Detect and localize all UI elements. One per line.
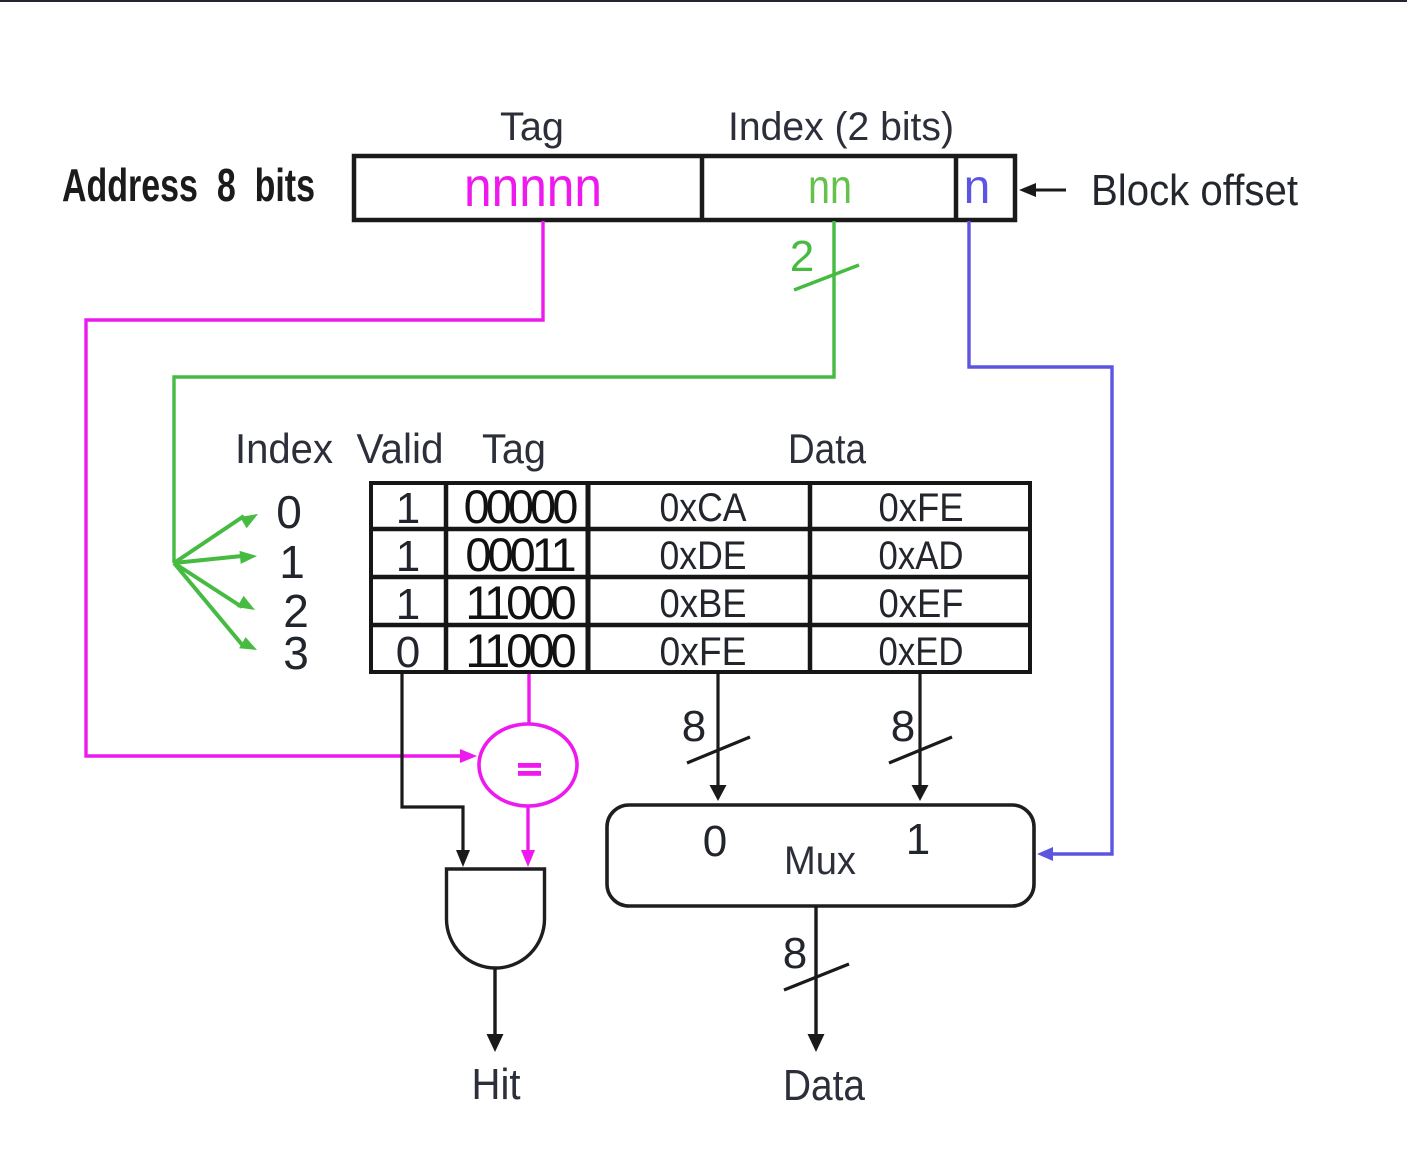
wire index (green) from address to cache rows xyxy=(174,221,834,563)
svg-text:0: 0 xyxy=(276,486,302,538)
svg-text:1: 1 xyxy=(279,536,305,588)
svg-text:1: 1 xyxy=(396,532,420,581)
svg-text:1: 1 xyxy=(396,484,420,533)
column divider data0/data1 xyxy=(808,481,813,674)
svg-text:Block offset: Block offset xyxy=(1091,166,1298,215)
svg-text:0: 0 xyxy=(703,817,727,866)
svg-text:1: 1 xyxy=(396,580,420,629)
svg-text:0xED: 0xED xyxy=(879,630,964,674)
wire tag (magenta) from address to comparator xyxy=(86,221,543,756)
svg-text:nnnnn: nnnnn xyxy=(464,155,602,218)
svg-text:1: 1 xyxy=(906,815,930,864)
svg-text:00000: 00000 xyxy=(464,480,578,533)
wire tag column to comparator (magenta) xyxy=(527,674,530,724)
svg-text:Hit: Hit xyxy=(472,1060,521,1109)
block offset arrow xyxy=(1030,189,1066,192)
svg-text:8: 8 xyxy=(891,702,915,751)
field divider tag/index xyxy=(700,154,705,222)
multiplexer Mux xyxy=(607,805,1034,906)
cache table outer box xyxy=(371,483,1030,672)
address register box xyxy=(354,156,1015,220)
svg-text:00011: 00011 xyxy=(465,528,574,581)
svg-text:Mux: Mux xyxy=(784,839,856,883)
fan-out arrow to row 0 xyxy=(174,516,244,563)
svg-text:Tag: Tag xyxy=(482,425,546,472)
svg-text:0xCA: 0xCA xyxy=(660,486,747,530)
wire offset (blue) from address to mux select xyxy=(969,221,1112,854)
wire data0 to mux xyxy=(716,674,719,787)
svg-text:Data: Data xyxy=(783,1061,865,1110)
svg-text:Data: Data xyxy=(788,425,867,472)
bus slash (data1) xyxy=(889,737,952,763)
row divider 1 xyxy=(371,527,1030,532)
svg-text:Index: Index xyxy=(235,425,333,472)
comparator = xyxy=(479,724,577,806)
svg-text:3: 3 xyxy=(283,627,309,679)
column divider tag/data xyxy=(586,481,591,674)
fan-out arrow to row 3 xyxy=(174,563,244,647)
row divider 2 xyxy=(371,575,1030,580)
svg-text:0xFE: 0xFE xyxy=(879,486,964,530)
wire valid to AND gate xyxy=(402,674,463,852)
bus slash (green) xyxy=(794,265,859,290)
svg-text:Valid: Valid xyxy=(357,425,444,472)
svg-text:11000: 11000 xyxy=(465,576,575,629)
svg-text:0xEF: 0xEF xyxy=(879,582,964,626)
svg-text:Index (2 bits): Index (2 bits) xyxy=(728,105,954,149)
svg-text:Tag: Tag xyxy=(500,105,564,149)
AND gate xyxy=(447,869,545,968)
svg-text:8: 8 xyxy=(682,702,706,751)
fan-out arrow to row 1 xyxy=(174,556,242,563)
svg-text:11000: 11000 xyxy=(465,624,575,677)
top border bar xyxy=(0,0,1407,2)
svg-text:nn: nn xyxy=(808,161,852,214)
column divider valid/tag xyxy=(444,481,449,674)
bus slash (data0) xyxy=(687,737,750,763)
svg-text:8: 8 xyxy=(783,929,807,978)
svg-text:Address 8 bits: Address 8 bits xyxy=(62,159,315,211)
row divider 3 xyxy=(371,623,1030,628)
bus slash (output) xyxy=(784,964,849,990)
svg-text:0xFE: 0xFE xyxy=(660,630,747,674)
svg-text:0xBE: 0xBE xyxy=(660,582,747,626)
wire mux output to Data xyxy=(814,906,817,1037)
fan-out arrow to row 2 xyxy=(174,563,242,607)
svg-text:0xDE: 0xDE xyxy=(660,534,747,578)
svg-text:0: 0 xyxy=(396,628,420,677)
field divider index/offset xyxy=(954,154,959,222)
wire AND gate output to Hit xyxy=(493,968,496,1037)
svg-text:n: n xyxy=(964,161,991,214)
wire comparator to AND gate (magenta) xyxy=(526,806,529,852)
wire data1 to mux xyxy=(918,674,921,787)
svg-text:0xAD: 0xAD xyxy=(879,534,964,578)
svg-text:2: 2 xyxy=(790,232,814,281)
